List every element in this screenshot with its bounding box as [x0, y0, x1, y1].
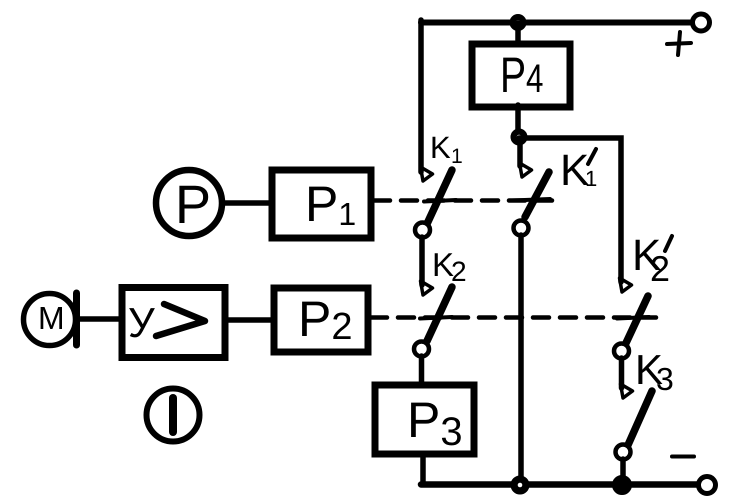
tick on K2' blade: [617, 317, 649, 319]
contact K2 blade: [427, 287, 452, 341]
wire P4 to junction A: [515, 105, 521, 140]
label -: [672, 455, 694, 459]
contact K1 moving pivot circle: [415, 223, 430, 238]
wire M to amplifier: [80, 316, 122, 322]
label K1: [433, 137, 462, 163]
terminal - (negative supply): [699, 477, 716, 494]
wire amplifier to P2: [225, 317, 274, 323]
label K2: [435, 253, 466, 281]
label +: [667, 32, 691, 55]
relay P4: [472, 44, 570, 107]
label K3: [638, 355, 672, 390]
wire P to P1: [222, 200, 272, 206]
node bottom junction: [511, 476, 529, 494]
tick on K2 blade: [420, 317, 452, 319]
wire junction to P4: [515, 23, 521, 46]
sensor P circle: [156, 170, 222, 236]
wire P3 to bottom rail: [420, 454, 426, 484]
wire bottom negative rail: [421, 481, 699, 488]
relay P2: [274, 288, 368, 352]
node K3 junction dot: [613, 476, 632, 495]
contact K2 fixed hook: [421, 281, 433, 295]
contact K1' blade: [525, 172, 549, 217]
contact K1' pivot circle: [514, 221, 529, 236]
contact K2 pivot circle: [414, 342, 429, 357]
wire K2' to K3: [619, 358, 625, 388]
amplifier U box: [122, 288, 225, 358]
wire junction A right and down to K2': [519, 138, 621, 282]
contact K1' short wire: [517, 144, 523, 166]
wire K1 to K2: [419, 237, 425, 285]
contact K3 blade: [628, 391, 652, 445]
tick on K1 blade: [424, 200, 456, 202]
contact K2' pivot circle: [614, 344, 629, 359]
contact K3 pivot circle: [616, 445, 631, 460]
contact K2' blade: [626, 296, 648, 343]
node top junction: [510, 15, 526, 31]
motor M circle: [24, 294, 76, 346]
tick on K1' blade: [512, 199, 550, 201]
wire K3 to junction dot: [620, 459, 626, 480]
wire K1' down to bottom rail: [518, 235, 524, 485]
node I indicator circle: [147, 389, 200, 442]
wire left branch down from rail to K1: [418, 20, 424, 172]
contact K1' fixed hook: [520, 163, 532, 177]
contact K3 fixed hook: [621, 384, 633, 398]
contact K2' fixed hook: [620, 278, 632, 292]
dashed link row 1: [374, 198, 558, 203]
node A below P4: [511, 129, 527, 145]
terminal + (positive supply): [693, 14, 710, 31]
label K1': [564, 155, 597, 186]
contact K1 fixed hook: [421, 167, 433, 181]
amplifier gain symbol: [156, 304, 205, 336]
dashed link row 2: [371, 315, 656, 320]
wire K2 to P3: [419, 356, 425, 386]
label K2': [636, 240, 669, 281]
shaft bar at M: [73, 293, 80, 345]
relay P3: [375, 385, 474, 454]
wire top positive rail: [421, 20, 693, 26]
relay P1: [272, 170, 371, 238]
contact K1 blade: [426, 170, 452, 226]
